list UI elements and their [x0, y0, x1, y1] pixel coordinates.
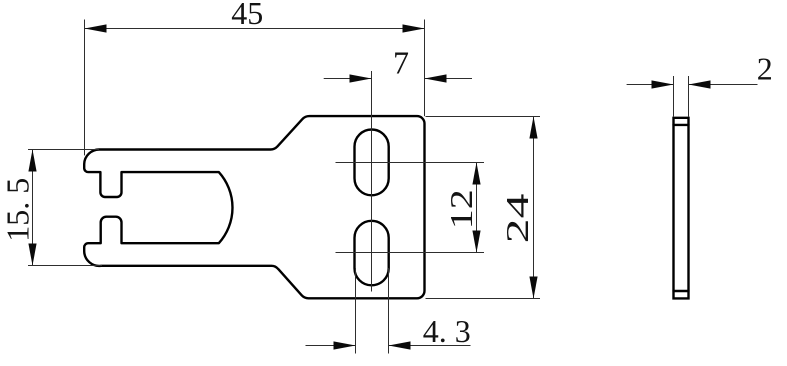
dimension 45 extension line right: [424, 20, 426, 117]
dimension 7 line: [324, 78, 372, 80]
side view edge line bottom: [674, 290, 689, 292]
dimension 12 arrow bottom: [472, 231, 480, 253]
dimension 2 extension line left: [673, 76, 675, 117]
dimension 24 extension line bottom: [426, 298, 541, 300]
dimension 7 arrow right: [425, 74, 447, 82]
dimension 2 extension line right: [688, 76, 690, 117]
dimension 15.5 arrow top: [28, 150, 36, 172]
dimension 2 arrow right: [689, 80, 711, 88]
dimension 15.5 arrow bottom: [28, 244, 36, 266]
svg-text:15. 5: 15. 5: [0, 178, 35, 242]
centerline top slot horizontal: [336, 162, 485, 164]
dimension 2 arrow left: [652, 80, 674, 88]
dimension 12 arrow top: [472, 163, 480, 185]
svg-text:24: 24: [500, 193, 535, 243]
dimension 45 line: [85, 28, 425, 30]
dimension 4.3 arrow right: [389, 341, 411, 349]
centerline vertical through slots: [371, 71, 373, 292]
svg-text:12: 12: [444, 189, 479, 229]
dimension 45 extension line left: [84, 20, 86, 156]
dimension 12 line: [476, 163, 478, 253]
dimension 4.3 extension line right: [388, 268, 390, 354]
dimension 24 arrow bottom: [529, 277, 537, 299]
dimension 15.5 extension line top: [28, 149, 99, 151]
side view outline: [674, 118, 689, 299]
centerline bottom slot horizontal: [336, 252, 485, 254]
dimension 7 arrow left: [350, 74, 372, 82]
dimension 45 arrow right: [403, 24, 425, 32]
dimension 45 arrow left: [85, 24, 107, 32]
side view edge line top: [674, 124, 689, 126]
svg-text:7: 7: [393, 45, 409, 81]
dimension 4.3 extension line left: [355, 268, 357, 354]
svg-text:2: 2: [757, 50, 773, 86]
svg-text:45: 45: [231, 0, 263, 31]
slot hole bottom: [355, 221, 389, 285]
part main view outline: [84, 116, 424, 298]
dimension 15.5 extension line bottom: [28, 265, 102, 267]
dimension 2 line: [627, 84, 674, 86]
dimension 24 arrow top: [529, 117, 537, 139]
dimension 15.5 line: [32, 150, 34, 266]
dimension 24 extension line top: [426, 116, 541, 118]
dimension 4.3 arrow left: [334, 341, 356, 349]
dimension 4.3 line: [306, 345, 356, 347]
svg-text:4. 3: 4. 3: [423, 313, 471, 349]
slot hole top: [355, 130, 389, 196]
dimension 24 line: [533, 117, 535, 299]
